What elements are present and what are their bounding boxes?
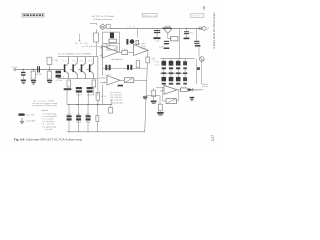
resistor R1 (shunt)	[31, 69, 36, 85]
cap C6 + ground stack (x~157)	[153, 28, 160, 42]
input jack J1	[12, 66, 19, 71]
svg-text:comm GND: comm GND	[26, 121, 36, 123]
svg-text:16Vdc: 16Vdc	[86, 122, 92, 124]
grid bracket label	[155, 61, 159, 66]
resistor R6	[96, 93, 105, 101]
collector rail	[58, 56, 98, 58]
filter cap bank row 2 (dark squares)	[162, 77, 188, 81]
resistor R11 (between op-amps)	[119, 49, 134, 54]
svg-text:1 = amp/section: 1 = amp/section	[42, 112, 56, 115]
filter cap bank row 1 (dark squares)	[162, 61, 188, 66]
diode D1 (dark arrow)	[188, 88, 193, 91]
cap C3 tantalum (dark)	[55, 71, 62, 83]
wire from note to lamp	[90, 23, 97, 25]
B+ feed arrow	[79, 34, 80, 42]
svg-text:470: 470	[189, 33, 192, 35]
junction cluster: cap C5	[126, 28, 137, 44]
pilot lamp (diamond with X)	[100, 24, 106, 30]
grid mid rail with junction bars	[160, 72, 188, 74]
wire into OA3 stage	[146, 87, 164, 104]
svg-text:indicators:: indicators:	[42, 109, 49, 112]
legend: ground symbol drawing	[20, 118, 36, 124]
emitter rail	[58, 77, 98, 79]
series cap C2	[35, 66, 42, 76]
svg-text:gain 40 dB max: gain 40 dB max	[112, 59, 123, 61]
ground (isolated, below output)	[190, 97, 195, 101]
op-amp OA3	[164, 85, 177, 94]
cap C12 (electrolytic row 2)	[66, 114, 71, 121]
pot P1 (output of OA1)	[120, 78, 147, 83]
regulator box U-reg	[171, 37, 178, 41]
svg-text:+9 V: +9 V	[127, 26, 135, 28]
cap C9 + ground (x~197)	[194, 28, 200, 46]
svg-text:B+ 15 Vdc: B+ 15 Vdc	[75, 43, 89, 45]
svg-text:6 Solid-State RF Phono Amps: 6 Solid-State RF Phono Amps	[212, 12, 216, 49]
svg-text:Fig. 6-6: Fig. 6-6	[14, 137, 25, 141]
small box on bus before terminal	[199, 27, 202, 30]
svg-text:OA 741C: OA 741C	[137, 42, 146, 45]
fuse box on supply	[106, 24, 110, 28]
op-amp OA2b	[134, 45, 149, 56]
svg-text:Solid-state NPN-SOT HC TCA-4 p: Solid-state NPN-SOT HC TCA-4 phono amp	[26, 137, 82, 141]
svg-text:elec 25V: elec 25V	[26, 115, 35, 117]
transistor T3	[78, 57, 85, 79]
svg-text:.047uF: .047uF	[35, 74, 42, 76]
row 2 ground bars	[162, 83, 187, 85]
feedback cap C14 on wire	[103, 65, 148, 70]
box label 3 (top-right)	[191, 14, 205, 18]
row 1 ground bars	[162, 67, 187, 69]
svg-text:C = ceramic disc: C = ceramic disc	[110, 101, 123, 104]
svg-text:4.7k: 4.7k	[101, 96, 106, 98]
title box label 1 (top-left)	[22, 13, 44, 17]
feedback cap C15	[127, 65, 132, 70]
svg-text:741: 741	[168, 84, 174, 86]
long vertical divider (right of center)	[145, 50, 148, 131]
svg-text:line out: line out	[202, 85, 209, 88]
cap C16 (electrolytic row 2)	[85, 114, 91, 124]
output wire of OA3	[177, 89, 203, 91]
svg-text:(input): (input)	[100, 81, 106, 84]
resistor R4 (below emitter rail)	[64, 80, 72, 90]
svg-text:2 = amf ratio (F1): 2 = amf ratio (F1)	[42, 115, 57, 118]
resistor R2 (to rail above)	[47, 57, 58, 70]
ground at divider	[143, 96, 147, 100]
svg-text:10uF: 10uF	[159, 46, 164, 48]
svg-text:REG 9 V: REG 9 V	[143, 15, 156, 17]
transistor T4	[87, 57, 94, 79]
figure caption	[14, 137, 82, 141]
pass transistor Q6 (triangle)	[163, 26, 172, 38]
op-amp OA1 input wires	[99, 78, 107, 83]
transistor T1	[63, 57, 69, 79]
vertical from regulator to filter grid	[179, 28, 181, 58]
resistor R3 (shunt)	[47, 69, 52, 83]
grid right verticals	[197, 59, 202, 84]
resistor R9 on long vertical	[146, 57, 156, 63]
filter grid top rail	[160, 58, 194, 60]
svg-text:all capacitors 25Vdc or more: all capacitors 25Vdc or more	[32, 104, 57, 107]
svg-text:147: 147	[211, 135, 215, 141]
cap C10 (electrolytic pair row 1)	[76, 87, 83, 96]
svg-text:AC 117V to 9V 300mA: AC 117V to 9V 300mA	[92, 15, 114, 18]
grid column stubs	[164, 59, 185, 77]
main +9V bus wire	[110, 27, 202, 29]
input wires to OA0 pair	[100, 48, 102, 56]
component value list text	[110, 91, 123, 104]
op-amp OA2a	[102, 46, 119, 58]
verticals from supply into preamp	[98, 43, 120, 104]
margin artifact mark	[203, 6, 205, 9]
cap C11 (electrolytic pair row 1)	[87, 87, 94, 96]
electrolytic C-filter (dark)	[110, 33, 114, 39]
svg-text:V: V	[207, 30, 209, 32]
resistor R7 (right end of bus A)	[109, 101, 113, 114]
svg-text:4.7 tant: 4.7 tant	[55, 79, 62, 82]
series resistor R14 on output	[181, 86, 188, 91]
svg-text:T1: T1	[63, 60, 66, 62]
svg-text:OUT 9 V: OUT 9 V	[192, 16, 204, 18]
svg-text:C22: C22	[155, 64, 159, 66]
svg-text:out: out	[194, 89, 198, 92]
cap C8 + ground stack (x~186.5)	[184, 28, 193, 39]
vertical drops bus A to ground rail	[67, 90, 98, 132]
svg-text:3 = crystal: 3 = crystal	[42, 118, 54, 121]
note text (AC line / battery eliminator)	[92, 15, 114, 21]
resistor R12	[151, 88, 157, 104]
input signal wire	[16, 68, 65, 70]
svg-text:100uF: 100uF	[76, 94, 83, 96]
svg-text:T2: T2	[72, 60, 75, 62]
svg-text:T4: T4	[88, 60, 91, 62]
svg-text:dc battery eliminator: dc battery eliminator	[93, 18, 112, 21]
resistor R15 (lower right of filter)	[96, 116, 99, 122]
trimmer box	[136, 40, 139, 44]
svg-text:4 = speakers: 4 = speakers	[42, 120, 54, 123]
transistor T2	[70, 57, 77, 79]
legend: electrolytic symbol	[18, 113, 35, 116]
svg-text:F = audio out amp: F = audio out amp	[42, 125, 56, 128]
resistor R8 (vertical, near C15)	[136, 61, 139, 68]
value text	[141, 46, 147, 50]
battery box below loop	[107, 46, 117, 50]
output note text	[202, 84, 209, 88]
output jack circle (right edge)	[199, 47, 204, 62]
junction blob right of grid	[197, 67, 200, 70]
legend: ground note text	[32, 99, 57, 107]
legend: indicators list	[42, 109, 58, 131]
svg-text:T1 & T2 2N3904 / T3 & T4 2N390: T1 & T2 2N3904 / T3 & T4 2N3906	[58, 54, 92, 56]
resistor R13	[157, 104, 163, 115]
resistor in loop	[109, 39, 116, 42]
feedback pot P2	[163, 87, 179, 103]
ground rail (bottom)	[67, 131, 145, 133]
svg-text:4.7k: 4.7k	[60, 77, 64, 79]
box label 2 (top-middle-right)	[142, 13, 157, 17]
cap C1 (shunt electrolytic)	[21, 69, 26, 84]
ground under OA1	[118, 85, 123, 87]
svg-text:OA 741: OA 741	[105, 44, 112, 47]
cap C7 to ground	[159, 41, 169, 49]
terminal circle +9V out	[202, 27, 208, 32]
svg-text:16Vdc: 16Vdc	[76, 122, 82, 124]
cap C13 (electrolytic row 2)	[76, 114, 82, 124]
bus A (lower distribution wire)	[67, 104, 112, 105]
filter loop box	[103, 32, 120, 43]
svg-text:* see p54: * see p54	[44, 129, 53, 131]
op-amp OA1	[107, 76, 120, 86]
resistor R5 (below emitter rail)	[92, 80, 96, 95]
transistor Q5 (TO-case dark)	[130, 39, 135, 44]
svg-text:T3: T3	[80, 60, 83, 62]
svg-text:C21: C21	[155, 61, 159, 63]
svg-text:2.2M: 2.2M	[52, 60, 58, 62]
svg-text:2N3055: 2N3055	[164, 26, 171, 28]
svg-text:100: 100	[155, 40, 160, 42]
dropping resistor R-supply	[94, 30, 99, 57]
